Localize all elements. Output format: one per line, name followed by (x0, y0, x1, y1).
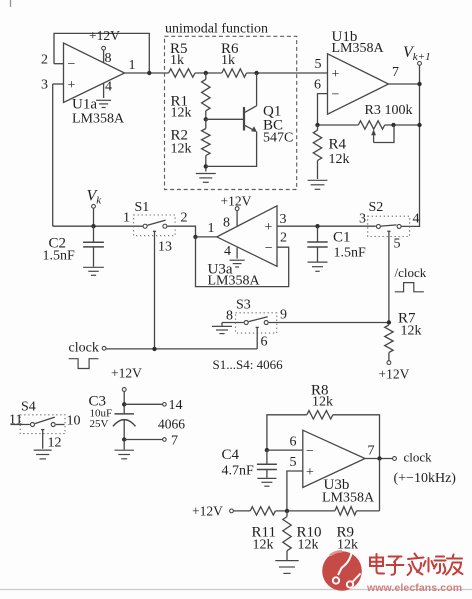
svg-text:13: 13 (158, 240, 172, 255)
svg-text:+12V: +12V (89, 28, 120, 43)
svg-text:1: 1 (123, 211, 130, 226)
svg-text:7: 7 (171, 434, 178, 449)
svg-text:11: 11 (9, 413, 22, 428)
svg-text:3: 3 (359, 212, 366, 227)
svg-text:12k: 12k (312, 395, 333, 410)
svg-text:3: 3 (41, 78, 48, 93)
svg-text:2: 2 (280, 231, 287, 246)
svg-text:LM358A: LM358A (322, 491, 375, 506)
svg-text:clock: clock (69, 341, 99, 356)
svg-text:−: − (265, 241, 273, 256)
svg-text:4: 4 (413, 212, 420, 227)
svg-text:U1a: U1a (72, 97, 97, 113)
svg-text:14: 14 (169, 398, 183, 413)
svg-text:C4: C4 (222, 447, 240, 463)
svg-text:LM358A: LM358A (332, 41, 385, 56)
svg-text:5: 5 (394, 237, 401, 252)
svg-text:S4: S4 (21, 400, 36, 415)
svg-text:1k: 1k (170, 53, 184, 68)
svg-text:+: + (332, 67, 340, 82)
svg-text:Vk+1: Vk+1 (403, 44, 431, 63)
svg-text:12k: 12k (329, 152, 350, 167)
svg-text:4: 4 (224, 244, 231, 259)
svg-text:8: 8 (226, 309, 233, 324)
svg-text:7: 7 (368, 444, 375, 459)
svg-text:12k: 12k (298, 538, 319, 553)
svg-text:R4: R4 (329, 137, 347, 153)
svg-text:12k: 12k (253, 538, 274, 553)
svg-text:12k: 12k (171, 106, 192, 121)
svg-text:Vk: Vk (87, 188, 103, 207)
svg-text:6: 6 (290, 435, 297, 450)
svg-text:7: 7 (392, 65, 399, 80)
svg-text:S2: S2 (369, 200, 384, 215)
svg-text:4.7nF: 4.7nF (222, 464, 255, 479)
svg-text:1: 1 (129, 58, 136, 73)
svg-text:LM358A: LM358A (208, 274, 261, 289)
svg-text:8: 8 (223, 216, 230, 231)
svg-text:/clock: /clock (395, 265, 427, 280)
svg-text:−: − (332, 88, 340, 103)
svg-text:+12V: +12V (111, 366, 142, 381)
svg-text:+: + (68, 78, 76, 93)
svg-text:+: + (265, 220, 273, 235)
svg-text:LM358A: LM358A (72, 112, 125, 127)
svg-text:5: 5 (290, 455, 297, 470)
svg-text:12k: 12k (401, 324, 422, 339)
svg-text:unimodal function: unimodal function (165, 22, 268, 37)
svg-text:100k: 100k (385, 103, 413, 118)
svg-text:12k: 12k (171, 142, 192, 157)
svg-text:−: − (306, 444, 314, 459)
svg-text:4: 4 (105, 80, 112, 95)
svg-text:8: 8 (105, 51, 112, 66)
svg-text:1: 1 (208, 221, 215, 236)
svg-text:1k: 1k (221, 53, 235, 68)
svg-text:5: 5 (315, 57, 322, 72)
svg-text:−: − (68, 57, 76, 72)
svg-text:10: 10 (67, 414, 81, 429)
svg-text:S1: S1 (135, 200, 150, 215)
svg-text:S1...S4: 4066: S1...S4: 4066 (213, 357, 284, 372)
svg-text:+12V: +12V (221, 193, 252, 208)
svg-text:S3: S3 (236, 298, 251, 313)
svg-text:+: + (306, 465, 314, 480)
svg-text:547C: 547C (263, 131, 293, 146)
svg-text:12: 12 (48, 436, 62, 451)
svg-text:4066: 4066 (158, 417, 185, 432)
svg-text:6: 6 (261, 335, 268, 350)
svg-text:2: 2 (41, 53, 48, 68)
svg-text:+12V: +12V (379, 367, 410, 382)
svg-text:9: 9 (280, 308, 287, 323)
svg-text:1.5nF: 1.5nF (43, 249, 76, 264)
svg-text:25V: 25V (90, 418, 109, 430)
svg-text:6: 6 (314, 78, 321, 93)
svg-text:www.elecfans.com: www.elecfans.com (366, 582, 462, 594)
svg-text:2: 2 (181, 211, 188, 226)
svg-text:3: 3 (280, 212, 287, 227)
svg-text:+12V: +12V (192, 504, 223, 519)
svg-text:R3: R3 (365, 103, 381, 118)
svg-text:1.5nF: 1.5nF (334, 246, 367, 261)
svg-text:C1: C1 (333, 230, 351, 246)
svg-text:clock: clock (404, 450, 433, 465)
svg-text:(+−10kHz): (+−10kHz) (394, 471, 457, 486)
